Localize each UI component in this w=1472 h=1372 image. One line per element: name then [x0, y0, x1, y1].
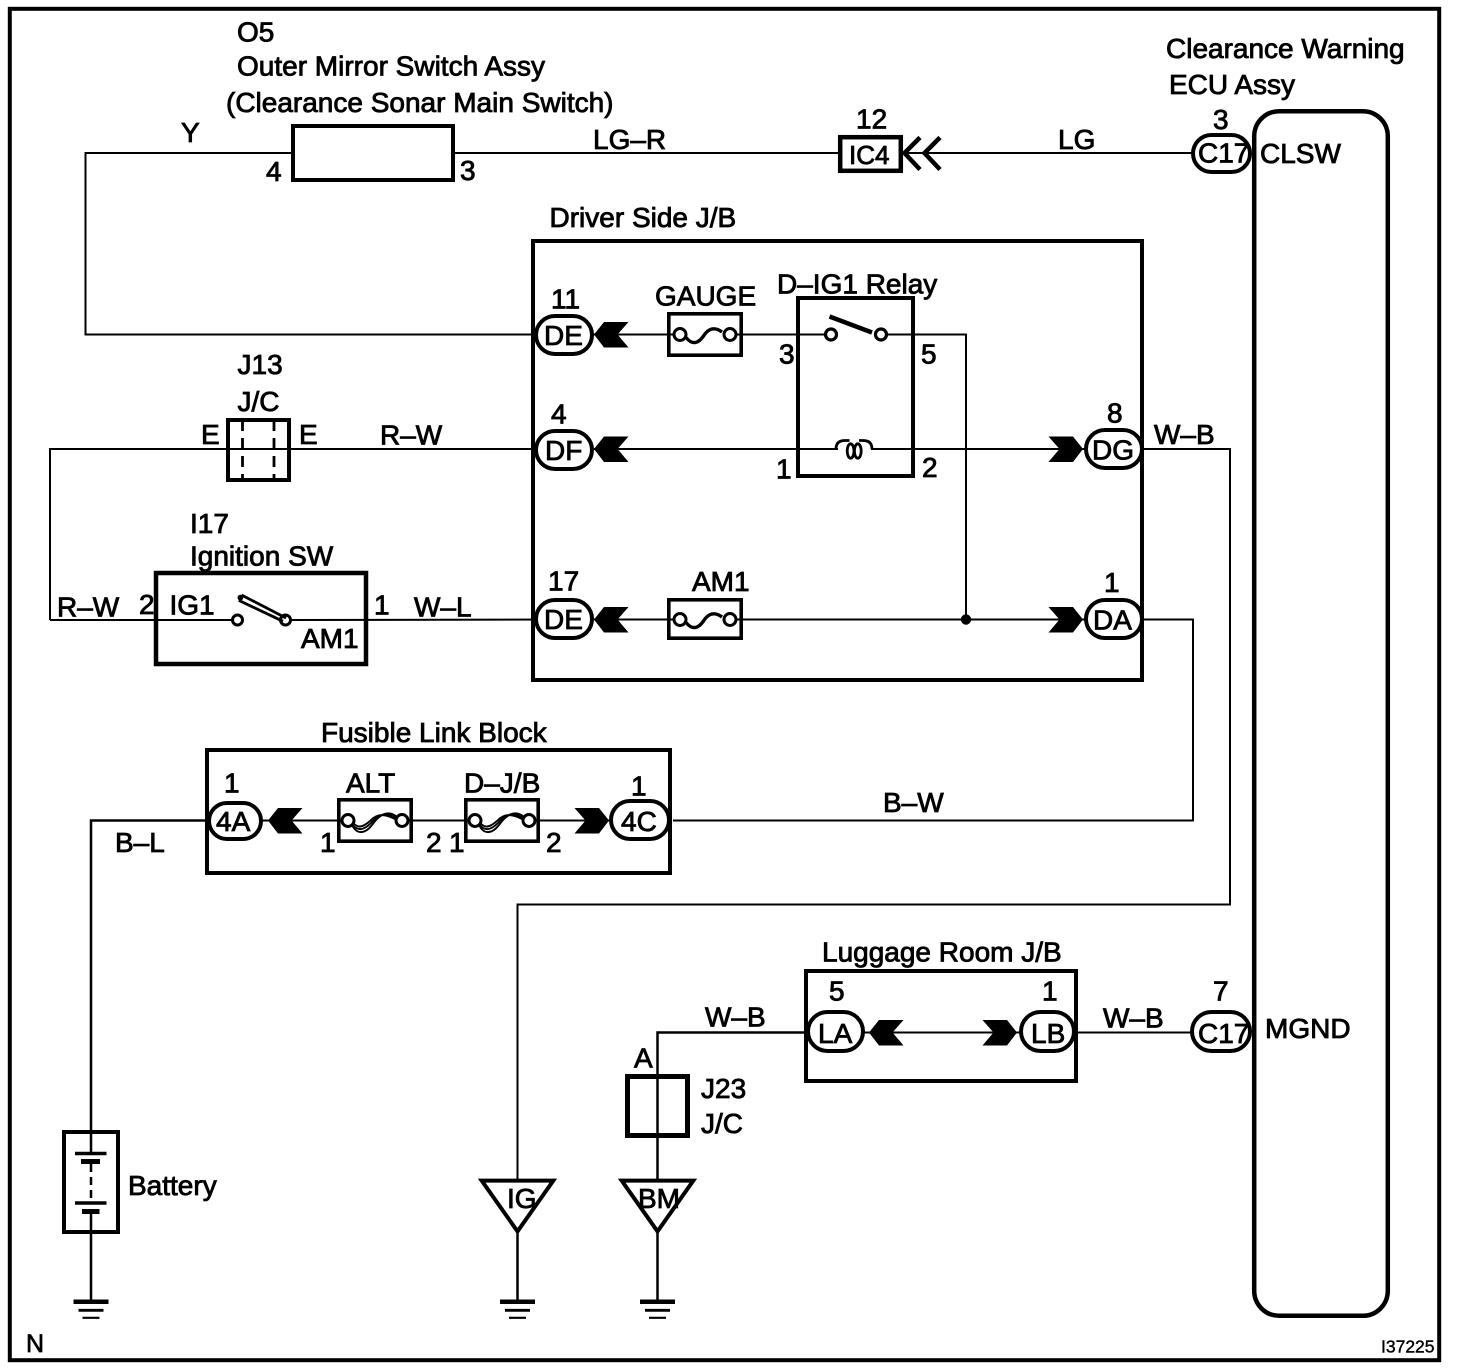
wire row1 DE11 to GAUGE fuse — [564, 334, 675, 336]
wire BM triangle to ground — [656, 1232, 659, 1301]
svg-text:B–L: B–L — [115, 827, 165, 858]
arrow into LB — [983, 1020, 1018, 1046]
ground battery — [74, 1302, 109, 1318]
svg-text:R–W: R–W — [57, 592, 120, 623]
svg-text:1: 1 — [320, 827, 336, 858]
Fusible Link Block box — [207, 750, 670, 873]
svg-text:LG–R: LG–R — [593, 124, 666, 155]
junction dot — [961, 614, 971, 624]
svg-text:C17: C17 — [1198, 138, 1249, 169]
svg-text:N: N — [26, 1330, 44, 1358]
svg-text:4C: 4C — [621, 806, 657, 837]
svg-text:AM1: AM1 — [692, 566, 750, 597]
svg-text:Battery: Battery — [128, 1170, 217, 1201]
svg-text:DE: DE — [544, 320, 583, 351]
IG ground triangle — [482, 1181, 554, 1232]
connector DE 11 — [536, 316, 592, 354]
arrow into DG — [1049, 437, 1084, 463]
svg-text:LB: LB — [1031, 1018, 1065, 1049]
svg-text:ALT: ALT — [346, 768, 395, 799]
wire D-J/B to 4C — [535, 820, 642, 822]
svg-text:5: 5 — [921, 339, 937, 370]
svg-text:8: 8 — [1107, 398, 1123, 429]
svg-text:MGND: MGND — [1265, 1013, 1351, 1044]
ground BM — [640, 1302, 675, 1318]
svg-text:GAUGE: GAUGE — [655, 281, 756, 312]
svg-text:I17: I17 — [190, 508, 229, 539]
I17 ignition switch box — [156, 573, 366, 664]
wire DF to relay coil pin1 — [594, 448, 838, 450]
svg-text:2: 2 — [426, 827, 442, 858]
relay switch contacts — [826, 329, 837, 340]
svg-text:LA: LA — [818, 1018, 853, 1049]
wire GAUGE to relay contact 3 — [736, 334, 827, 336]
arrow into 4C — [575, 808, 610, 834]
GAUGE fuse — [669, 314, 741, 355]
svg-text:DA: DA — [1093, 605, 1132, 636]
svg-text:B–W: B–W — [883, 787, 944, 818]
svg-text:E: E — [299, 419, 318, 450]
connector 4A — [209, 803, 261, 839]
svg-text:J13: J13 — [238, 349, 283, 380]
svg-text:D–J/B: D–J/B — [464, 768, 540, 799]
arrow into LA — [869, 1020, 904, 1046]
wire LA to LB — [837, 1032, 1048, 1034]
svg-text:IG1: IG1 — [170, 590, 215, 621]
wire Y from O5 pin4 to DE11 — [86, 153, 535, 335]
wire B-L from 4A to battery — [91, 821, 237, 1153]
ignition blade — [242, 595, 287, 618]
ignition contacts — [233, 615, 243, 625]
connector DF 4 — [536, 431, 592, 469]
svg-text:3: 3 — [779, 339, 795, 370]
svg-text:Fusible Link Block: Fusible Link Block — [321, 717, 548, 748]
arrow into DE11 — [594, 322, 629, 348]
relay coil — [836, 441, 872, 459]
battery — [64, 1132, 118, 1232]
component O5 outer mirror switch — [293, 126, 453, 180]
svg-text:1: 1 — [631, 771, 647, 802]
wire fusible row 4A to ALT — [237, 820, 343, 822]
Driver Side J/B box — [533, 241, 1142, 680]
chevron arrows at IC4 — [905, 138, 921, 170]
wire B-W from DA down to 4C — [673, 620, 1193, 821]
wire W-B from LA to J23 and BM — [658, 1033, 807, 1181]
wire relay contact 5 down to junction — [887, 335, 967, 620]
svg-text:17: 17 — [548, 566, 579, 597]
svg-text:4: 4 — [266, 156, 282, 187]
svg-text:R–W: R–W — [380, 420, 443, 451]
svg-text:1: 1 — [449, 827, 465, 858]
svg-text:W–B: W–B — [705, 1002, 766, 1033]
connector DG 8 — [1086, 430, 1142, 468]
svg-text:O5: O5 — [237, 17, 274, 48]
wire AM1 fuse to DA — [736, 619, 1115, 621]
svg-text:(Clearance Sonar Main Switch): (Clearance Sonar Main Switch) — [226, 87, 614, 118]
svg-text:D–IG1 Relay: D–IG1 Relay — [777, 269, 937, 300]
svg-text:DG: DG — [1092, 435, 1134, 466]
svg-text:Outer Mirror Switch Assy: Outer Mirror Switch Assy — [237, 51, 545, 82]
wire battery to ground — [90, 1212, 93, 1301]
svg-text:DE: DE — [544, 604, 583, 635]
svg-text:I37225: I37225 — [1381, 1337, 1435, 1357]
svg-text:IC4: IC4 — [849, 140, 889, 170]
AM1 fuse — [669, 600, 741, 638]
svg-text:DF: DF — [545, 435, 582, 466]
svg-text:1: 1 — [224, 768, 240, 799]
svg-text:CLSW: CLSW — [1260, 138, 1341, 169]
relay switch blade — [830, 317, 873, 333]
wire W-B from LB to MGND C17 — [1077, 1032, 1192, 1034]
svg-text:2: 2 — [139, 589, 155, 620]
svg-text:Luggage Room J/B: Luggage Room J/B — [822, 937, 1062, 968]
svg-text:1: 1 — [1042, 976, 1058, 1007]
ECU assy outline — [1254, 111, 1388, 1316]
svg-text:E: E — [201, 419, 220, 450]
svg-text:J/C: J/C — [238, 386, 280, 417]
svg-text:Driver Side J/B: Driver Side J/B — [550, 202, 737, 233]
arrow into 4A — [268, 808, 303, 834]
svg-text:7: 7 — [1213, 976, 1229, 1007]
svg-text:W–B: W–B — [1103, 1003, 1164, 1034]
arrow into DE17 — [594, 607, 629, 633]
svg-text:5: 5 — [829, 976, 845, 1007]
svg-text:C17: C17 — [1198, 1018, 1249, 1049]
svg-text:3: 3 — [1213, 104, 1229, 135]
svg-text:A: A — [634, 1043, 653, 1074]
svg-text:4: 4 — [551, 399, 567, 430]
connector C17 CLSW — [1193, 135, 1250, 172]
J23 J/C box — [628, 1077, 688, 1136]
svg-text:3: 3 — [460, 155, 476, 186]
connector C17 MGND — [1192, 1012, 1250, 1051]
svg-text:Ignition SW: Ignition SW — [190, 541, 334, 572]
svg-text:W–L: W–L — [414, 592, 472, 623]
Luggage Room J/B box — [806, 971, 1076, 1081]
svg-text:4A: 4A — [216, 806, 251, 837]
BM ground triangle — [622, 1181, 694, 1232]
IC4 box — [840, 137, 901, 171]
svg-text:AM1: AM1 — [301, 623, 359, 654]
ALT fusible link — [339, 800, 411, 841]
wire relay coil pin2 to DG — [871, 448, 1114, 450]
wire LG-R from O5 pin3 to IC4 — [455, 152, 838, 154]
wire W-B from DG down to IG ground lead — [518, 449, 1231, 1180]
svg-text:12: 12 — [856, 104, 887, 135]
svg-text:11: 11 — [551, 284, 580, 315]
svg-text:BM: BM — [638, 1183, 680, 1214]
connector LB 1 — [1021, 1012, 1074, 1051]
svg-text:IG: IG — [507, 1183, 537, 1214]
svg-text:2: 2 — [546, 827, 562, 858]
svg-text:Clearance Warning: Clearance Warning — [1166, 33, 1405, 64]
arrow into DA — [1049, 607, 1084, 633]
svg-text:LG: LG — [1058, 124, 1095, 155]
arrow into DF — [594, 437, 629, 463]
connector DA 1 — [1086, 600, 1142, 638]
wire ALT to D-J/B — [408, 820, 470, 822]
wire LG from IC4 to CLSW C17 — [903, 152, 1192, 154]
J13 J/C box — [228, 420, 289, 480]
wire row3 R-W to ignition switch — [50, 619, 233, 621]
svg-text:ECU Assy: ECU Assy — [1169, 69, 1295, 100]
D-IG1 relay box — [798, 298, 913, 476]
svg-text:1: 1 — [1104, 567, 1120, 598]
wire row2 R-W through J13 to DF — [50, 449, 564, 620]
svg-text:1: 1 — [374, 590, 390, 621]
wire IG triangle to ground — [516, 1232, 519, 1301]
svg-text:1: 1 — [776, 454, 792, 485]
wire DE17 to AM1 fuse — [594, 619, 675, 621]
connector 4C — [611, 801, 669, 839]
svg-text:J/C: J/C — [701, 1108, 743, 1139]
svg-text:Y: Y — [181, 117, 200, 148]
wire ignition switch to DE17 — [291, 619, 565, 622]
connector DE 17 — [536, 600, 592, 638]
svg-text:2: 2 — [922, 452, 938, 483]
svg-text:W–B: W–B — [1154, 419, 1215, 450]
connector LA 5 — [808, 1012, 863, 1051]
ground IG — [500, 1302, 535, 1318]
D-J/B fusible link — [466, 800, 538, 841]
svg-text:J23: J23 — [701, 1073, 746, 1104]
